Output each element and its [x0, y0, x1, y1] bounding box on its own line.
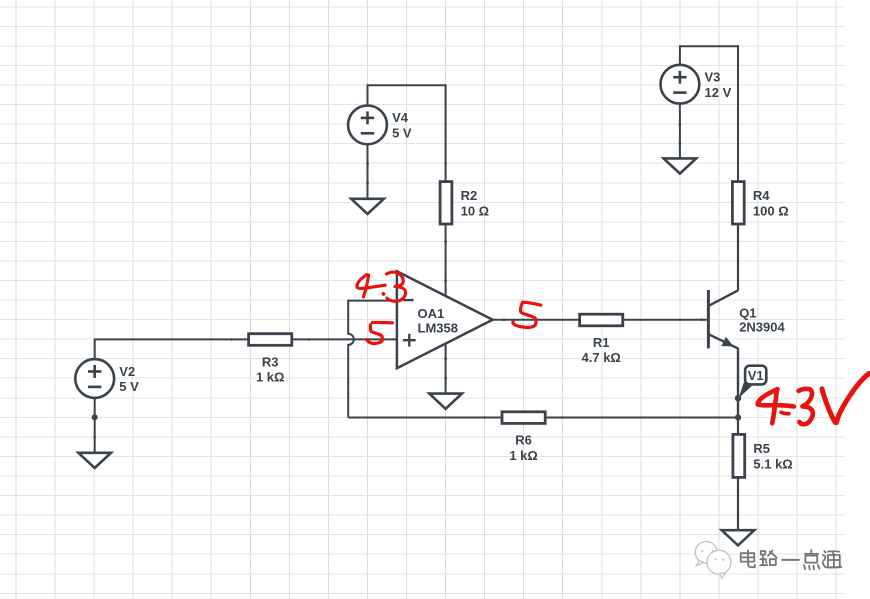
voltage source V3: [661, 65, 732, 104]
wire R3 to op-amp plus input: [292, 338, 397, 340]
wire op-amp to ground: [445, 344, 447, 394]
red annotation 4.3 at op-amp minus input: [357, 272, 406, 301]
wire op-amp minus input: [348, 300, 397, 302]
svg-text:100 Ω: 100 Ω: [753, 203, 789, 218]
svg-text:2N3904: 2N3904: [739, 320, 785, 335]
svg-text:V3: V3: [705, 70, 721, 85]
resistor R5: [737, 418, 739, 435]
wire R4 to Q1 collector: [737, 225, 739, 291]
svg-text:1 kΩ: 1 kΩ: [256, 370, 285, 385]
svg-text:5 V: 5 V: [119, 379, 139, 394]
feedback wire with hop over plus wire: [348, 300, 354, 418]
wire Q1 emitter down: [737, 348, 739, 418]
svg-text:R2: R2: [461, 188, 478, 203]
svg-text:V4: V4: [392, 110, 409, 125]
wire V3 top to R4: [680, 46, 738, 181]
wire R5 to ground: [737, 478, 739, 530]
svg-text:V1: V1: [748, 368, 764, 383]
watermark character tong: [823, 551, 842, 567]
resistor R6: [502, 412, 545, 463]
wire V2 top to R3: [95, 339, 248, 359]
junction on V2 ground wire: [92, 414, 98, 420]
wire V2 to ground: [94, 398, 96, 453]
resistor R1: [580, 314, 623, 365]
voltage source V4: [348, 106, 412, 145]
wire V3 to ground: [679, 103, 681, 158]
ground below V4: [351, 199, 384, 214]
svg-text:Q1: Q1: [739, 305, 756, 320]
svg-text:R4: R4: [753, 188, 770, 203]
transistor Q1: [708, 290, 785, 348]
svg-text:5 V: 5 V: [392, 126, 412, 141]
resistor R4: [732, 182, 788, 224]
ground below R5: [722, 530, 755, 545]
wire R1 to Q1 base: [624, 319, 709, 321]
svg-text:5.1 kΩ: 5.1 kΩ: [753, 456, 792, 471]
red annotation 5 at op-amp output: [513, 302, 541, 327]
svg-text:OA1: OA1: [418, 306, 445, 321]
wire R2 bottom to op-amp power: [445, 224, 447, 297]
watermark character yi: [782, 558, 799, 563]
wire V4 to ground: [367, 144, 369, 199]
watermark character dian2: [804, 550, 819, 569]
junction node emitter/R6/R5: [735, 414, 741, 420]
svg-text:LM358: LM358: [418, 320, 458, 335]
red annotation 4.3V at output node: [758, 374, 869, 425]
wire V4 top to R2: [368, 85, 446, 181]
resistor R3: [249, 334, 292, 385]
ground below op-amp: [429, 394, 462, 409]
ground below V2: [78, 453, 111, 468]
wire feedback bottom to junction: [348, 417, 738, 419]
op-amp OA1: [397, 271, 493, 368]
svg-text:R1: R1: [593, 335, 610, 350]
ground below V3: [664, 158, 697, 173]
wire op-amp output to R1: [493, 319, 579, 321]
resistor R2: [440, 182, 489, 224]
WeChat-style logo: [695, 541, 731, 578]
svg-text:1 kΩ: 1 kΩ: [509, 448, 538, 463]
svg-text:4.7 kΩ: 4.7 kΩ: [582, 350, 621, 365]
svg-text:R5: R5: [753, 441, 770, 456]
red annotation 5 at op-amp plus input: [367, 322, 393, 343]
svg-text:R6: R6: [515, 432, 532, 447]
probe V1: [735, 366, 767, 402]
watermark character dian: [741, 550, 755, 567]
svg-text:12 V: 12 V: [705, 85, 732, 100]
watermark character lu: [760, 550, 777, 565]
svg-text:V2: V2: [119, 364, 135, 379]
svg-text:R3: R3: [262, 354, 279, 369]
svg-text:10 Ω: 10 Ω: [461, 203, 490, 218]
